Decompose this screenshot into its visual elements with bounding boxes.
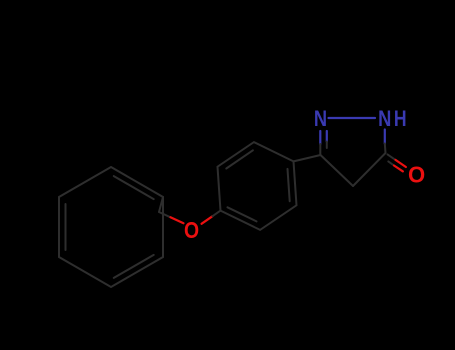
svg-text:O: O [184, 217, 199, 243]
inner double bond T2-TL2 [226, 150, 253, 168]
bond N1-C5 (gray part) [384, 144, 387, 154]
benzene ring left (phenyl of benzyl) [59, 167, 163, 287]
inner double bond BR2-TR2 [288, 169, 290, 201]
inner double bond BR-B [114, 255, 154, 278]
wire O to aryl ring (gray half) [213, 211, 221, 217]
wire CH2 to O (red half) [171, 217, 184, 223]
bond N1-C5 (blue part, vertical) [384, 130, 386, 144]
wire O to aryl ring (red half) [202, 216, 213, 224]
svg-text:N: N [314, 106, 327, 131]
inner double bond BL-TL [65, 204, 67, 250]
double bond C5=O2 (red) [388, 154, 396, 160]
bond C3-C4 [321, 155, 354, 186]
wire CH2 to ring [159, 197, 163, 212]
wire CH2 to O (gray half) [159, 212, 171, 217]
inner double bond T-TR [114, 176, 154, 199]
benzene ring right (4-substituted phenyl) [218, 142, 297, 230]
wire aryl to C3 [294, 155, 321, 161]
bond C4-C5 [353, 153, 386, 186]
double bond C3=N2 (blue vertical, gray tail) [319, 131, 321, 144]
inner double bond BL2-B2 [228, 207, 257, 221]
bond N2-N1 (blue) [329, 117, 376, 119]
svg-text:N: N [378, 106, 391, 131]
svg-text:O: O [408, 161, 425, 187]
svg-text:H: H [394, 106, 407, 131]
